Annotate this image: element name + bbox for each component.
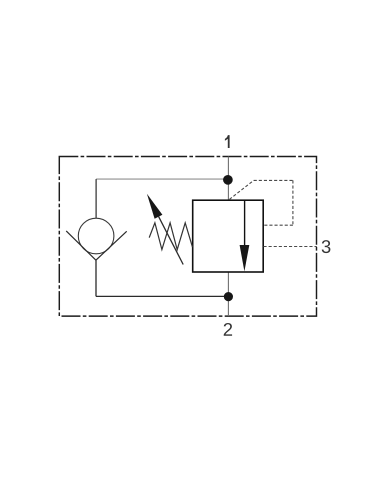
port label 1: [225, 135, 230, 148]
port label 3: [322, 240, 331, 253]
wire top branch (check valve to node 1): [96, 178, 228, 180]
pilot line: right vertical: [292, 180, 294, 225]
node 1 junction dot: [223, 175, 233, 185]
pilot drain line to port 3: [264, 246, 317, 248]
wire check valve lower lead: [95, 260, 97, 296]
check valve CV1 seat: [66, 231, 127, 260]
wire node1 to valve top: [227, 180, 229, 200]
spring S1 (adjustable) zigzag: [149, 223, 192, 250]
node 2 junction dot: [224, 292, 233, 301]
check valve CV1 ball: [78, 218, 114, 254]
wire bottom branch (check valve to node 2): [96, 295, 228, 297]
port label 2: [224, 323, 232, 336]
valve V1 body square: [193, 200, 264, 272]
pilot line: top horizontal: [254, 179, 293, 181]
adjustment arrow shaft: [159, 217, 184, 265]
pilot line: return to valve right side: [264, 224, 293, 226]
enclosure boundary (dash-dot frame): [59, 157, 316, 317]
wire port2 stub (node 2 to border): [227, 297, 229, 317]
wire port1 stub (border to node 1): [227, 157, 229, 180]
wire valve bottom to node2: [227, 272, 229, 297]
adjustment arrowhead: [147, 194, 163, 219]
valve V1 flow path line: [244, 200, 246, 250]
pilot line: diagonal from valve top: [229, 180, 253, 199]
valve V1 flow arrowhead: [240, 245, 250, 271]
wire check valve upper lead: [95, 179, 97, 218]
